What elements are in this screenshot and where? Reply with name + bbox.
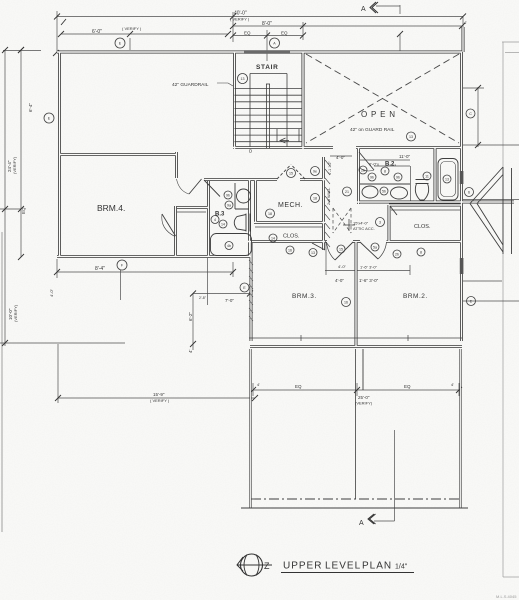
svg-text:(VERIFY): (VERIFY): [12, 156, 17, 174]
svg-text:BRM.2.: BRM.2.: [403, 293, 428, 300]
svg-text:18: 18: [268, 212, 272, 216]
svg-text:(VERIFY): (VERIFY): [13, 304, 18, 322]
svg-text:1'-6" 3'-0": 1'-6" 3'-0": [359, 278, 379, 283]
svg-text:4b: 4b: [227, 244, 231, 248]
svg-text:9b: 9b: [226, 194, 230, 198]
svg-text:4: 4: [214, 218, 216, 222]
svg-text:4': 4': [257, 382, 260, 387]
svg-text:16: 16: [288, 249, 292, 253]
svg-text:C: C: [469, 112, 472, 116]
svg-text:42" on GUARD RAIL: 42" on GUARD RAIL: [350, 127, 395, 133]
svg-text:CLOS.: CLOS.: [283, 234, 300, 240]
svg-text:9b: 9b: [370, 176, 374, 180]
svg-text:2b: 2b: [395, 253, 399, 257]
svg-text:13: 13: [241, 77, 245, 81]
svg-text:CLOS.: CLOS.: [414, 224, 431, 230]
svg-text:(VERIFY): (VERIFY): [355, 401, 373, 406]
svg-text:Z: Z: [264, 561, 270, 571]
svg-text:8: 8: [384, 170, 386, 174]
svg-text:13: 13: [445, 178, 449, 182]
svg-text:11: 11: [425, 175, 429, 179]
svg-text:18: 18: [313, 197, 317, 201]
svg-text:( VERIFY ): ( VERIFY ): [230, 17, 250, 22]
svg-text:4'-0": 4'-0": [338, 264, 347, 269]
svg-text:4': 4': [188, 349, 193, 353]
svg-text:2'-8": 2'-8": [199, 296, 207, 300]
svg-text:( VERIFY ): ( VERIFY ): [122, 26, 142, 31]
svg-text:21: 21: [345, 190, 349, 194]
svg-text:4': 4': [451, 382, 454, 387]
svg-text:1'-6" 3'-0": 1'-6" 3'-0": [360, 265, 378, 270]
svg-text:MECH.: MECH.: [278, 202, 303, 209]
svg-text:ATTIC ACC.: ATTIC ACC.: [353, 226, 375, 231]
svg-text:11'-0": 11'-0": [399, 154, 411, 159]
svg-text:2b: 2b: [361, 169, 365, 173]
svg-text:14: 14: [221, 223, 225, 227]
svg-text:7'-0": 7'-0": [225, 298, 234, 303]
svg-text:9b: 9b: [396, 176, 400, 180]
svg-text:8'-0": 8'-0": [262, 21, 272, 27]
svg-text:6'-0"x: 6'-0"x: [369, 162, 379, 167]
svg-text:14: 14: [271, 237, 275, 241]
svg-text:15'-9": 15'-9": [153, 392, 165, 397]
svg-text:2x6 WALL: 2x6 WALL: [327, 188, 331, 205]
svg-text:8'-4": 8'-4": [95, 266, 105, 272]
svg-text:4'-0": 4'-0": [336, 155, 345, 160]
svg-text:15: 15: [339, 248, 343, 252]
svg-text:EQ: EQ: [244, 31, 251, 36]
svg-text:4'-1 1/2": 4'-1 1/2": [328, 160, 332, 175]
svg-text:13: 13: [311, 251, 315, 255]
svg-text:6'-2": 6'-2": [188, 312, 193, 321]
svg-text:BRM.3.: BRM.3.: [292, 293, 317, 300]
svg-text:4'-0": 4'-0": [49, 288, 54, 297]
svg-text:9e: 9e: [313, 170, 317, 174]
svg-text:6: 6: [468, 191, 470, 195]
svg-text:EQ: EQ: [295, 384, 302, 389]
svg-text:EQ: EQ: [281, 31, 288, 36]
svg-text:OPEN: OPEN: [361, 110, 399, 119]
svg-text:42" GUARDRAIL: 42" GUARDRAIL: [172, 82, 209, 88]
svg-text:BRM.4.: BRM.4.: [97, 203, 125, 213]
svg-text:B.3: B.3: [215, 212, 225, 218]
svg-text:M.L.S.4045: M.L.S.4045: [496, 594, 517, 599]
svg-text:25'-0": 25'-0": [358, 395, 370, 400]
svg-text:16: 16: [344, 301, 348, 305]
svg-text:EQ: EQ: [21, 207, 26, 214]
svg-text:A: A: [359, 520, 364, 527]
svg-text:13: 13: [409, 135, 413, 139]
svg-text:15: 15: [289, 172, 293, 176]
svg-text:8: 8: [420, 251, 422, 255]
svg-text:UPPERLEVELPLAN: UPPERLEVELPLAN: [283, 561, 392, 572]
svg-text:6'-0": 6'-0": [92, 29, 102, 35]
svg-text:B.2.: B.2.: [385, 162, 396, 168]
svg-text:( VERIFY ): ( VERIFY ): [150, 398, 170, 403]
svg-text:EQ: EQ: [404, 384, 411, 389]
svg-text:9a: 9a: [227, 204, 231, 208]
svg-text:3: 3: [379, 221, 381, 225]
svg-text:5b: 5b: [382, 190, 386, 194]
svg-text:STAIR: STAIR: [256, 64, 279, 71]
svg-text:4'-0": 4'-0": [335, 278, 344, 283]
svg-text:5a: 5a: [373, 246, 377, 250]
svg-text:A: A: [361, 6, 366, 13]
svg-text:4': 4': [464, 20, 467, 25]
svg-text:15'x4'-0": 15'x4'-0": [353, 221, 369, 226]
svg-text:1/4": 1/4": [395, 564, 408, 571]
svg-text:6'-4": 6'-4": [28, 103, 33, 112]
